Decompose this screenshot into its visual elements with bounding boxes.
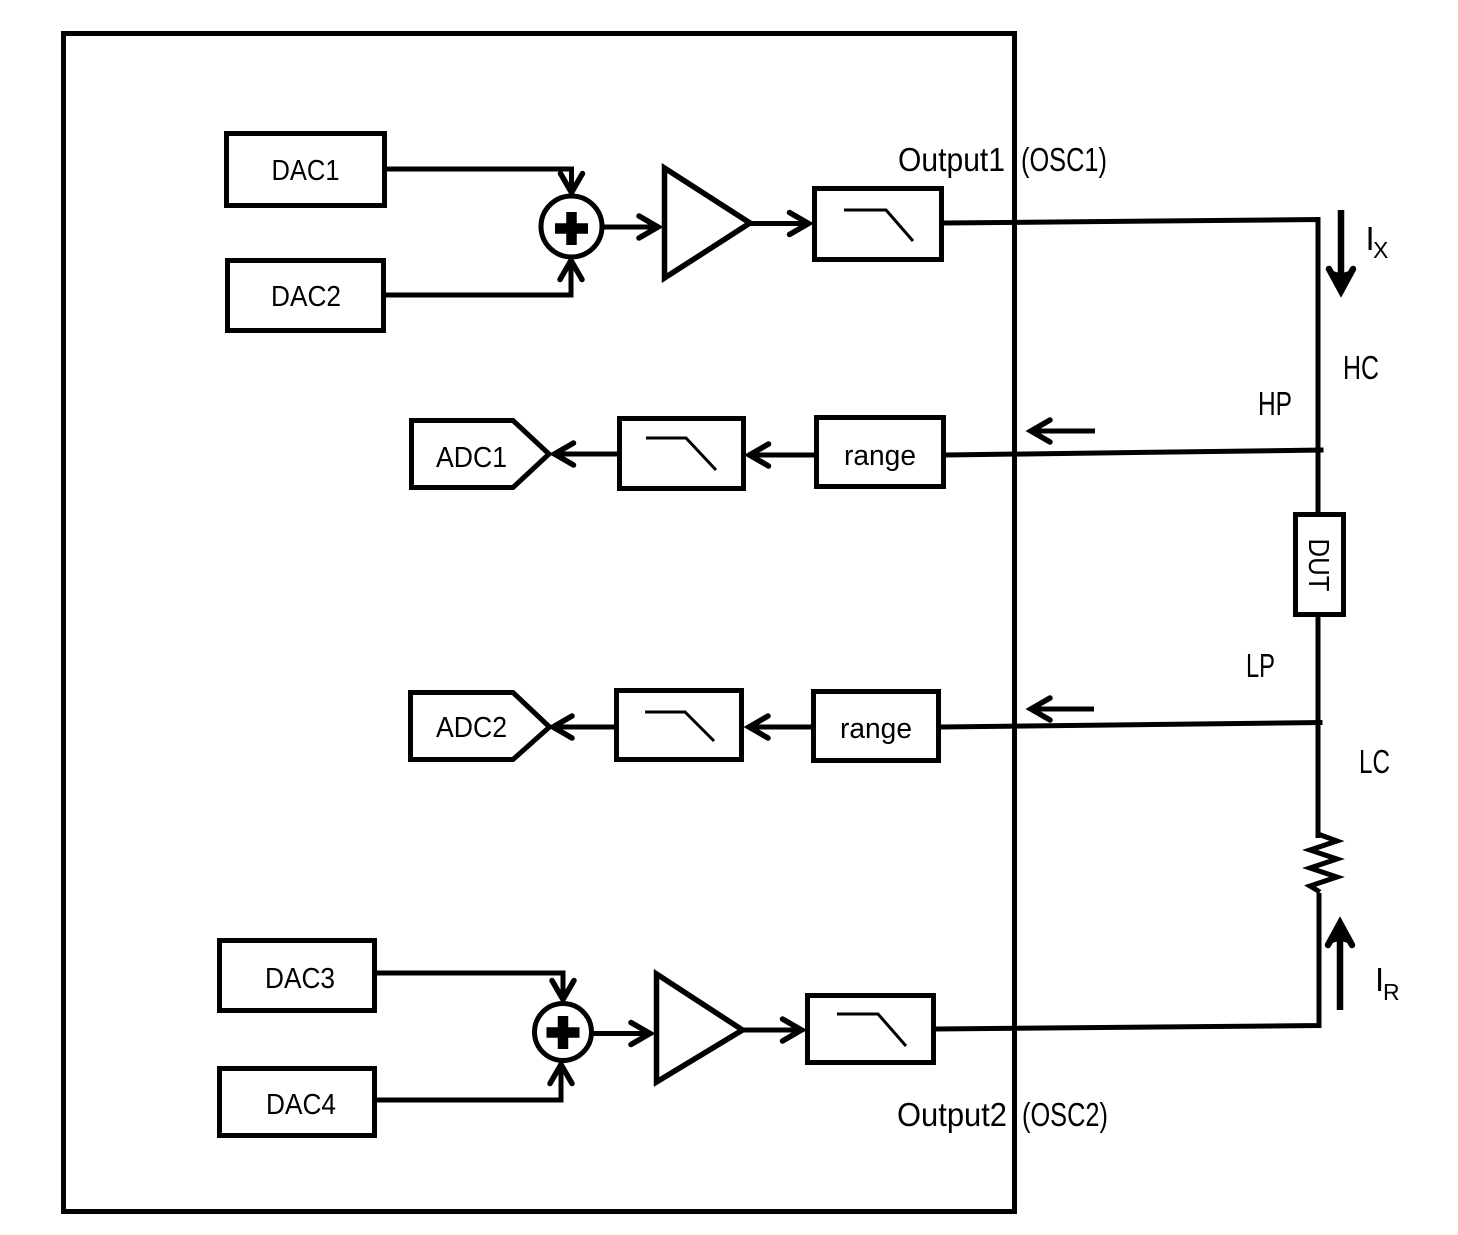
svg-text:DAC1: DAC1 xyxy=(272,155,340,187)
svg-text:(OSC1): (OSC1) xyxy=(1021,141,1107,178)
svg-text:range: range xyxy=(840,713,912,745)
svg-text:LC: LC xyxy=(1359,743,1390,780)
svg-text:HP: HP xyxy=(1258,385,1292,422)
svg-text:DAC4: DAC4 xyxy=(266,1089,336,1121)
svg-text:R: R xyxy=(1383,979,1400,1005)
svg-text:ADC2: ADC2 xyxy=(436,712,507,744)
svg-text:Output2: Output2 xyxy=(897,1096,1007,1133)
svg-text:DUT: DUT xyxy=(1302,539,1334,592)
svg-text:X: X xyxy=(1373,237,1388,263)
svg-text:HC: HC xyxy=(1343,349,1379,386)
svg-text:range: range xyxy=(844,440,916,472)
svg-text:ADC1: ADC1 xyxy=(436,442,507,474)
svg-text:Output1: Output1 xyxy=(898,141,1005,178)
svg-text:DAC3: DAC3 xyxy=(265,963,335,995)
svg-text:DAC2: DAC2 xyxy=(271,281,341,313)
svg-text:(OSC2): (OSC2) xyxy=(1022,1096,1108,1133)
svg-text:LP: LP xyxy=(1246,647,1275,684)
